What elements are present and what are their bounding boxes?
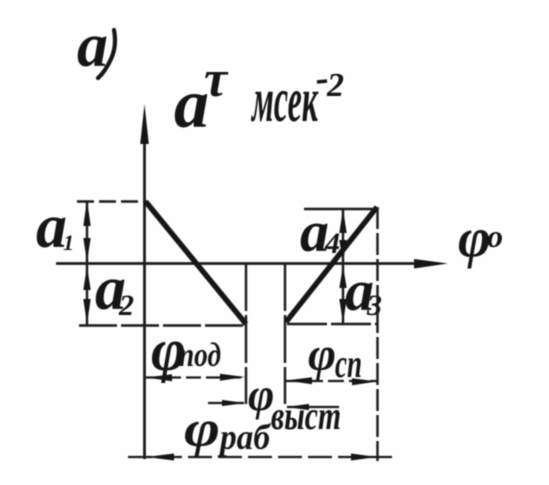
bottom-right level line [287,323,377,326]
top-left level dashed line [77,200,148,203]
label a1 [36,193,74,261]
label phi_sp [308,328,362,386]
dimension line a1/a2 (left vertical with arrows) [83,200,90,325]
svg-text:2: 2 [118,289,134,322]
descending acceleration line (left branch) [146,202,246,324]
dimension line a4/a3 (right vertical with arrows) [339,209,346,323]
label phi_rab [184,401,272,458]
svg-text:раб: раб [217,417,272,457]
svg-text:4: 4 [324,227,340,260]
x-axis label phi degrees [458,208,503,270]
svg-text:φ: φ [308,328,336,381]
label a4 [300,199,340,264]
dimension phi_rab (horizontal with outward arrows) [128,454,394,461]
svg-text:φ: φ [458,208,491,270]
svg-text:1: 1 [63,230,74,255]
x-axis (horizontal axis with right arrow) [56,259,448,269]
label a3 [345,258,382,323]
dimension phi_vyst left inward arrow [208,400,245,406]
label a) figure part marker [77,12,115,80]
svg-text:τ: τ [204,51,229,108]
svg-text:2: 2 [326,67,344,104]
svg-text:мсек: мсек [251,64,319,135]
y-axis label a^tau msek^-2 [174,51,344,143]
svg-text:сп: сп [335,341,362,386]
y-axis (vertical axis with up arrow, continues down as left extension line) [140,104,149,459]
svg-text:под: под [179,337,221,374]
extension line at x=246 (end of rise phase) [245,263,247,404]
label phi_vyst [248,370,341,438]
label a2 [95,255,134,323]
svg-text:3: 3 [366,289,382,322]
top-right level line [304,208,377,211]
svg-text:φ: φ [184,401,220,458]
right boundary extension line at x=377.5 [376,207,378,461]
svg-text:выст: выст [271,393,341,438]
extension line at x=285 (start of return phase) [284,263,286,404]
dimension phi_vyst right inward arrow [286,404,339,410]
dimension phi_sp (horizontal with outward arrows) [286,377,377,385]
label phi_pod [151,317,221,383]
bottom-left level line [79,324,247,327]
svg-text:о: о [487,218,503,254]
dimension phi_pod (horizontal with outward arrows) [146,374,245,381]
ascending acceleration line (right branch) [286,207,377,322]
